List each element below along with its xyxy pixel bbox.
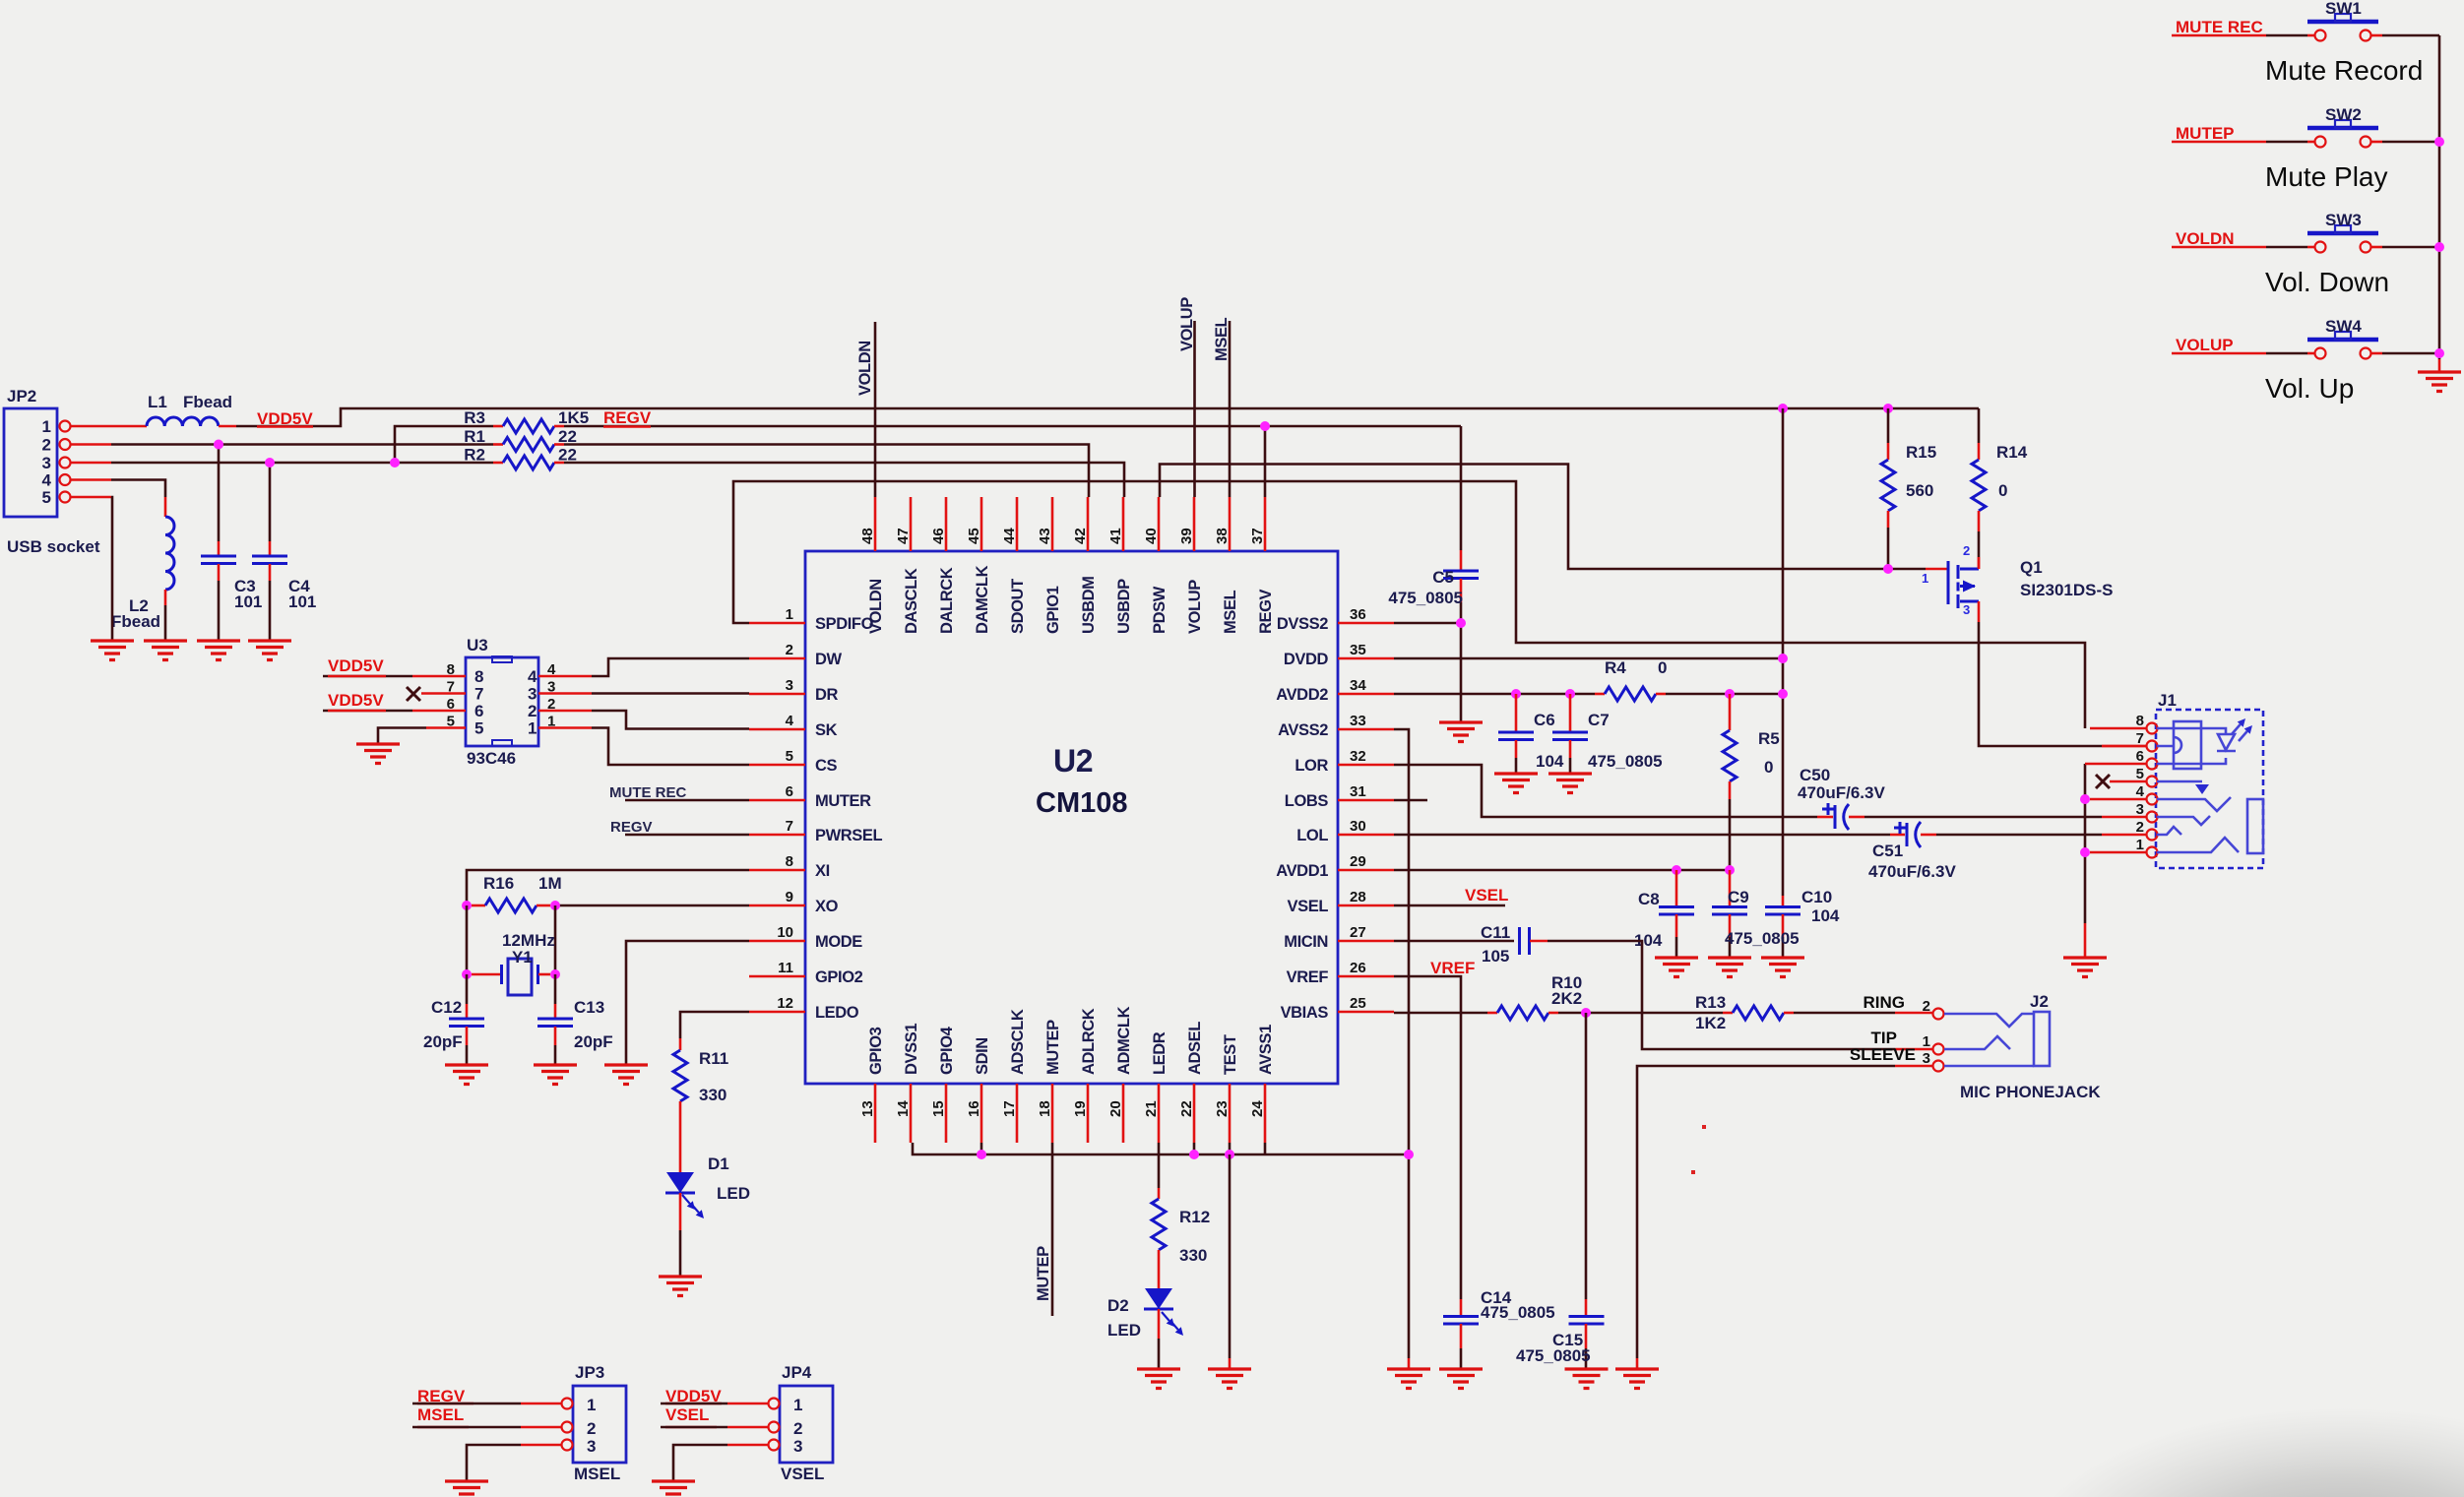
svg-text:VDD5V: VDD5V: [257, 409, 313, 428]
svg-text:34: 34: [1350, 677, 1366, 694]
svg-text:5: 5: [474, 719, 483, 738]
svg-text:475_0805: 475_0805: [1481, 1303, 1555, 1322]
svg-text:470uF/6.3V: 470uF/6.3V: [1868, 862, 1956, 881]
svg-text:ADMCLK: ADMCLK: [1115, 1006, 1133, 1075]
svg-text:36: 36: [1350, 606, 1366, 623]
svg-text:SDOUT: SDOUT: [1009, 579, 1027, 634]
svg-text:GPIO3: GPIO3: [867, 1027, 885, 1075]
svg-text:28: 28: [1350, 889, 1366, 905]
svg-text:11: 11: [778, 960, 793, 976]
svg-text:41: 41: [1107, 528, 1124, 544]
svg-text:C7: C7: [1588, 711, 1610, 729]
svg-text:16: 16: [966, 1100, 982, 1117]
svg-text:SW1: SW1: [2325, 0, 2362, 18]
svg-text:SPDIFO: SPDIFO: [815, 615, 874, 633]
svg-text:29: 29: [1350, 853, 1366, 870]
svg-text:MODE: MODE: [815, 933, 862, 951]
svg-text:CM108: CM108: [1036, 787, 1128, 819]
svg-text:45: 45: [966, 528, 982, 544]
svg-text:12: 12: [777, 995, 793, 1012]
svg-text:2: 2: [587, 1419, 596, 1438]
svg-text:VBIAS: VBIAS: [1281, 1004, 1329, 1022]
svg-text:475_0805: 475_0805: [1516, 1346, 1591, 1365]
svg-text:MUTEP: MUTEP: [2176, 124, 2235, 143]
svg-text:VOLUP: VOLUP: [2176, 336, 2234, 354]
svg-text:Fbead: Fbead: [111, 612, 160, 631]
svg-text:9: 9: [786, 889, 793, 905]
svg-text:22: 22: [558, 446, 577, 465]
svg-text:1: 1: [2136, 837, 2144, 853]
svg-text:REGV: REGV: [1257, 589, 1275, 634]
svg-text:38: 38: [1214, 528, 1231, 544]
svg-text:47: 47: [895, 528, 912, 544]
svg-text:U2: U2: [1053, 743, 1093, 779]
svg-text:7: 7: [786, 818, 793, 835]
svg-text:1K2: 1K2: [1695, 1014, 1726, 1032]
svg-text:LOL: LOL: [1296, 827, 1328, 844]
svg-text:Q1: Q1: [2020, 558, 2043, 577]
svg-text:SW3: SW3: [2325, 211, 2362, 229]
svg-text:1M: 1M: [538, 874, 562, 893]
svg-text:AVSS2: AVSS2: [1278, 721, 1328, 739]
svg-text:VOLDN: VOLDN: [2176, 229, 2235, 248]
svg-text:C9: C9: [1728, 888, 1749, 906]
svg-text:Fbead: Fbead: [183, 393, 232, 411]
svg-text:43: 43: [1037, 528, 1053, 544]
svg-text:330: 330: [699, 1086, 727, 1104]
svg-text:JP3: JP3: [575, 1363, 604, 1382]
svg-text:475_0805: 475_0805: [1725, 929, 1800, 948]
svg-text:LED: LED: [717, 1184, 750, 1203]
svg-text:CS: CS: [815, 757, 838, 775]
svg-text:3: 3: [528, 685, 537, 704]
svg-text:R15: R15: [1906, 443, 1936, 462]
svg-text:30: 30: [1350, 818, 1366, 835]
svg-text:MSEL: MSEL: [417, 1405, 464, 1424]
svg-text:39: 39: [1178, 528, 1195, 544]
svg-text:46: 46: [930, 528, 947, 544]
svg-text:25: 25: [1350, 995, 1366, 1012]
svg-text:560: 560: [1906, 481, 1933, 500]
svg-text:0: 0: [1658, 658, 1667, 677]
svg-text:SW4: SW4: [2325, 317, 2362, 336]
svg-text:C10: C10: [1801, 888, 1832, 906]
svg-text:LOR: LOR: [1295, 757, 1328, 775]
svg-text:1: 1: [1923, 1033, 1930, 1050]
svg-text:VREF: VREF: [1430, 959, 1475, 977]
svg-text:5: 5: [786, 748, 793, 765]
svg-text:1: 1: [42, 417, 51, 436]
svg-text:AVDD2: AVDD2: [1276, 686, 1328, 704]
svg-text:22: 22: [1178, 1100, 1195, 1117]
svg-text:RING: RING: [1864, 993, 1906, 1012]
svg-text:35: 35: [1350, 642, 1366, 658]
svg-text:R14: R14: [1996, 443, 2028, 462]
svg-text:MSEL: MSEL: [1222, 590, 1239, 634]
svg-text:3: 3: [2136, 801, 2144, 818]
svg-text:18: 18: [1037, 1100, 1053, 1117]
svg-text:GPIO2: GPIO2: [815, 968, 863, 986]
svg-text:DW: DW: [815, 651, 843, 668]
svg-text:2: 2: [1923, 998, 1930, 1015]
svg-text:17: 17: [1001, 1100, 1018, 1117]
svg-text:MUTE REC: MUTE REC: [609, 784, 687, 801]
svg-text:Vol. Down: Vol. Down: [2265, 267, 2389, 297]
svg-text:Vol. Up: Vol. Up: [2265, 373, 2354, 404]
svg-text:32: 32: [1350, 748, 1366, 765]
svg-text:U3: U3: [467, 636, 488, 655]
svg-text:101: 101: [234, 593, 262, 611]
svg-text:D1: D1: [708, 1154, 729, 1173]
svg-text:C50: C50: [1800, 766, 1830, 784]
svg-text:PDSW: PDSW: [1151, 586, 1169, 634]
svg-text:D2: D2: [1107, 1296, 1129, 1315]
svg-text:DVSS1: DVSS1: [903, 1024, 920, 1075]
svg-text:4: 4: [2136, 783, 2145, 800]
svg-text:VOLDN: VOLDN: [856, 341, 874, 396]
svg-text:R11: R11: [699, 1049, 728, 1068]
svg-text:VSEL: VSEL: [1465, 886, 1508, 904]
svg-text:7: 7: [2136, 730, 2144, 747]
svg-text:SI2301DS-S: SI2301DS-S: [2020, 581, 2114, 599]
svg-text:ADLRCK: ADLRCK: [1080, 1008, 1098, 1075]
svg-text:SLEEVE: SLEEVE: [1850, 1045, 1916, 1064]
svg-text:20pF: 20pF: [423, 1032, 463, 1051]
svg-text:6: 6: [2136, 748, 2144, 765]
svg-text:33: 33: [1350, 713, 1366, 729]
svg-text:101: 101: [288, 593, 316, 611]
svg-text:104: 104: [1811, 906, 1840, 925]
svg-text:1: 1: [786, 606, 793, 623]
svg-text:VOLUP: VOLUP: [1186, 580, 1204, 634]
svg-text:VSEL: VSEL: [781, 1465, 824, 1483]
svg-text:R5: R5: [1758, 729, 1780, 748]
svg-text:C13: C13: [574, 998, 604, 1017]
svg-text:2: 2: [786, 642, 793, 658]
svg-text:0: 0: [1764, 758, 1773, 777]
svg-text:MUTEP: MUTEP: [1035, 1246, 1052, 1301]
svg-text:LEDR: LEDR: [1151, 1031, 1169, 1075]
svg-text:GPIO1: GPIO1: [1044, 586, 1062, 634]
svg-text:Mute Play: Mute Play: [2265, 161, 2388, 192]
svg-text:1: 1: [793, 1396, 802, 1414]
svg-text:LEDO: LEDO: [815, 1004, 859, 1022]
svg-text:C11: C11: [1481, 923, 1510, 942]
svg-text:475_0805: 475_0805: [1588, 752, 1663, 771]
svg-text:3: 3: [786, 677, 793, 694]
svg-text:4: 4: [528, 667, 537, 686]
svg-text:21: 21: [1143, 1100, 1160, 1117]
svg-text:8: 8: [474, 667, 483, 686]
svg-text:2: 2: [1963, 543, 1970, 558]
svg-text:DVDD: DVDD: [1284, 651, 1329, 668]
svg-text:XI: XI: [815, 862, 830, 880]
svg-text:C8: C8: [1638, 890, 1660, 908]
svg-text:4: 4: [786, 713, 794, 729]
svg-text:R4: R4: [1605, 658, 1626, 677]
svg-text:MSEL: MSEL: [574, 1465, 620, 1483]
svg-text:19: 19: [1072, 1100, 1089, 1117]
svg-text:42: 42: [1072, 528, 1089, 544]
svg-text:VDD5V: VDD5V: [328, 656, 384, 675]
svg-text:31: 31: [1350, 783, 1366, 800]
svg-text:13: 13: [859, 1100, 876, 1117]
svg-text:VSEL: VSEL: [665, 1405, 709, 1424]
svg-text:PWRSEL: PWRSEL: [815, 827, 883, 844]
svg-text:DALRCK: DALRCK: [938, 567, 956, 634]
svg-text:SDIN: SDIN: [974, 1037, 991, 1075]
svg-text:TEST: TEST: [1222, 1034, 1239, 1075]
svg-text:USB socket: USB socket: [7, 537, 100, 556]
svg-text:GPIO4: GPIO4: [938, 1026, 956, 1075]
svg-text:15: 15: [930, 1100, 947, 1117]
svg-text:1: 1: [528, 719, 537, 738]
svg-text:14: 14: [895, 1100, 912, 1117]
svg-text:R12: R12: [1179, 1208, 1210, 1226]
svg-text:8: 8: [2136, 713, 2144, 729]
svg-text:REGV: REGV: [610, 819, 653, 836]
svg-text:3: 3: [1923, 1050, 1930, 1067]
svg-text:20: 20: [1107, 1100, 1124, 1117]
svg-text:0: 0: [1998, 481, 2007, 500]
svg-text:26: 26: [1350, 960, 1366, 976]
svg-text:22: 22: [558, 427, 577, 446]
svg-text:MIC PHONEJACK: MIC PHONEJACK: [1960, 1083, 2101, 1101]
svg-text:VDD5V: VDD5V: [328, 691, 384, 710]
svg-text:R3: R3: [464, 408, 485, 427]
svg-text:SW2: SW2: [2325, 105, 2362, 124]
svg-text:DVSS2: DVSS2: [1277, 615, 1328, 633]
svg-text:REGV: REGV: [603, 408, 652, 427]
svg-text:37: 37: [1249, 528, 1266, 544]
svg-text:XO: XO: [815, 898, 839, 915]
svg-text:AVDD1: AVDD1: [1276, 862, 1328, 880]
svg-text:6: 6: [786, 783, 793, 800]
svg-text:ADSCLK: ADSCLK: [1009, 1009, 1027, 1075]
svg-text:5: 5: [2136, 766, 2144, 782]
svg-text:330: 330: [1179, 1246, 1207, 1265]
svg-text:4: 4: [42, 471, 52, 490]
svg-text:LOBS: LOBS: [1285, 792, 1329, 810]
svg-text:MICIN: MICIN: [1284, 933, 1328, 951]
svg-text:R2: R2: [464, 446, 485, 465]
svg-text:20pF: 20pF: [574, 1032, 613, 1051]
svg-text:R13: R13: [1695, 993, 1726, 1012]
svg-text:C12: C12: [431, 998, 462, 1017]
svg-text:MSEL: MSEL: [1213, 317, 1231, 361]
svg-text:USBDP: USBDP: [1115, 579, 1133, 634]
svg-text:ADSEL: ADSEL: [1186, 1022, 1204, 1075]
svg-text:3: 3: [793, 1437, 802, 1456]
svg-text:DASCLK: DASCLK: [903, 568, 920, 634]
svg-text:5: 5: [42, 488, 51, 507]
svg-text:C51: C51: [1872, 842, 1903, 860]
svg-text:2: 2: [528, 702, 537, 720]
svg-text:10: 10: [777, 924, 793, 941]
svg-text:27: 27: [1350, 924, 1366, 941]
svg-text:C5: C5: [1432, 568, 1454, 587]
svg-text:1: 1: [1922, 571, 1928, 586]
svg-text:23: 23: [1214, 1100, 1231, 1117]
svg-text:LED: LED: [1107, 1321, 1141, 1340]
svg-text:2: 2: [793, 1419, 802, 1438]
svg-text:USBDM: USBDM: [1080, 577, 1098, 635]
svg-text:1: 1: [587, 1396, 596, 1414]
svg-text:L1: L1: [148, 393, 167, 411]
svg-text:475_0805: 475_0805: [1388, 589, 1463, 607]
svg-text:MUTE REC: MUTE REC: [2176, 18, 2263, 36]
svg-text:93C46: 93C46: [467, 749, 516, 768]
svg-text:44: 44: [1001, 528, 1018, 544]
svg-text:3: 3: [1963, 602, 1970, 617]
svg-text:MUTEP: MUTEP: [1044, 1020, 1062, 1075]
svg-text:1K5: 1K5: [558, 408, 589, 427]
svg-text:J2: J2: [2030, 992, 2049, 1011]
svg-text:470uF/6.3V: 470uF/6.3V: [1798, 783, 1885, 802]
svg-text:SK: SK: [815, 721, 838, 739]
svg-text:DAMCLK: DAMCLK: [974, 565, 991, 634]
svg-text:7: 7: [474, 685, 483, 704]
svg-text:JP4: JP4: [782, 1363, 812, 1382]
svg-text:MUTER: MUTER: [815, 792, 871, 810]
svg-text:R1: R1: [464, 427, 485, 446]
svg-text:VREF: VREF: [1287, 968, 1329, 986]
svg-text:104: 104: [1536, 752, 1564, 771]
svg-text:3: 3: [42, 454, 51, 472]
svg-text:8: 8: [786, 853, 793, 870]
svg-text:AVSS1: AVSS1: [1257, 1025, 1275, 1075]
svg-text:J1: J1: [2158, 691, 2177, 710]
svg-text:Y1: Y1: [512, 948, 533, 967]
svg-text:R16: R16: [483, 874, 514, 893]
svg-text:VOLUP: VOLUP: [1178, 297, 1196, 351]
svg-text:2: 2: [42, 436, 51, 455]
svg-text:DR: DR: [815, 686, 839, 704]
svg-text:C6: C6: [1534, 711, 1555, 729]
svg-text:105: 105: [1482, 947, 1509, 966]
svg-text:2: 2: [2136, 819, 2144, 836]
svg-text:40: 40: [1143, 528, 1160, 544]
svg-text:2K2: 2K2: [1551, 989, 1582, 1008]
svg-text:Mute Record: Mute Record: [2265, 55, 2423, 86]
svg-text:VSEL: VSEL: [1288, 898, 1329, 915]
svg-text:6: 6: [474, 702, 483, 720]
svg-text:JP2: JP2: [7, 387, 36, 405]
svg-text:3: 3: [587, 1437, 596, 1456]
svg-text:48: 48: [859, 528, 876, 544]
svg-text:24: 24: [1249, 1100, 1266, 1117]
